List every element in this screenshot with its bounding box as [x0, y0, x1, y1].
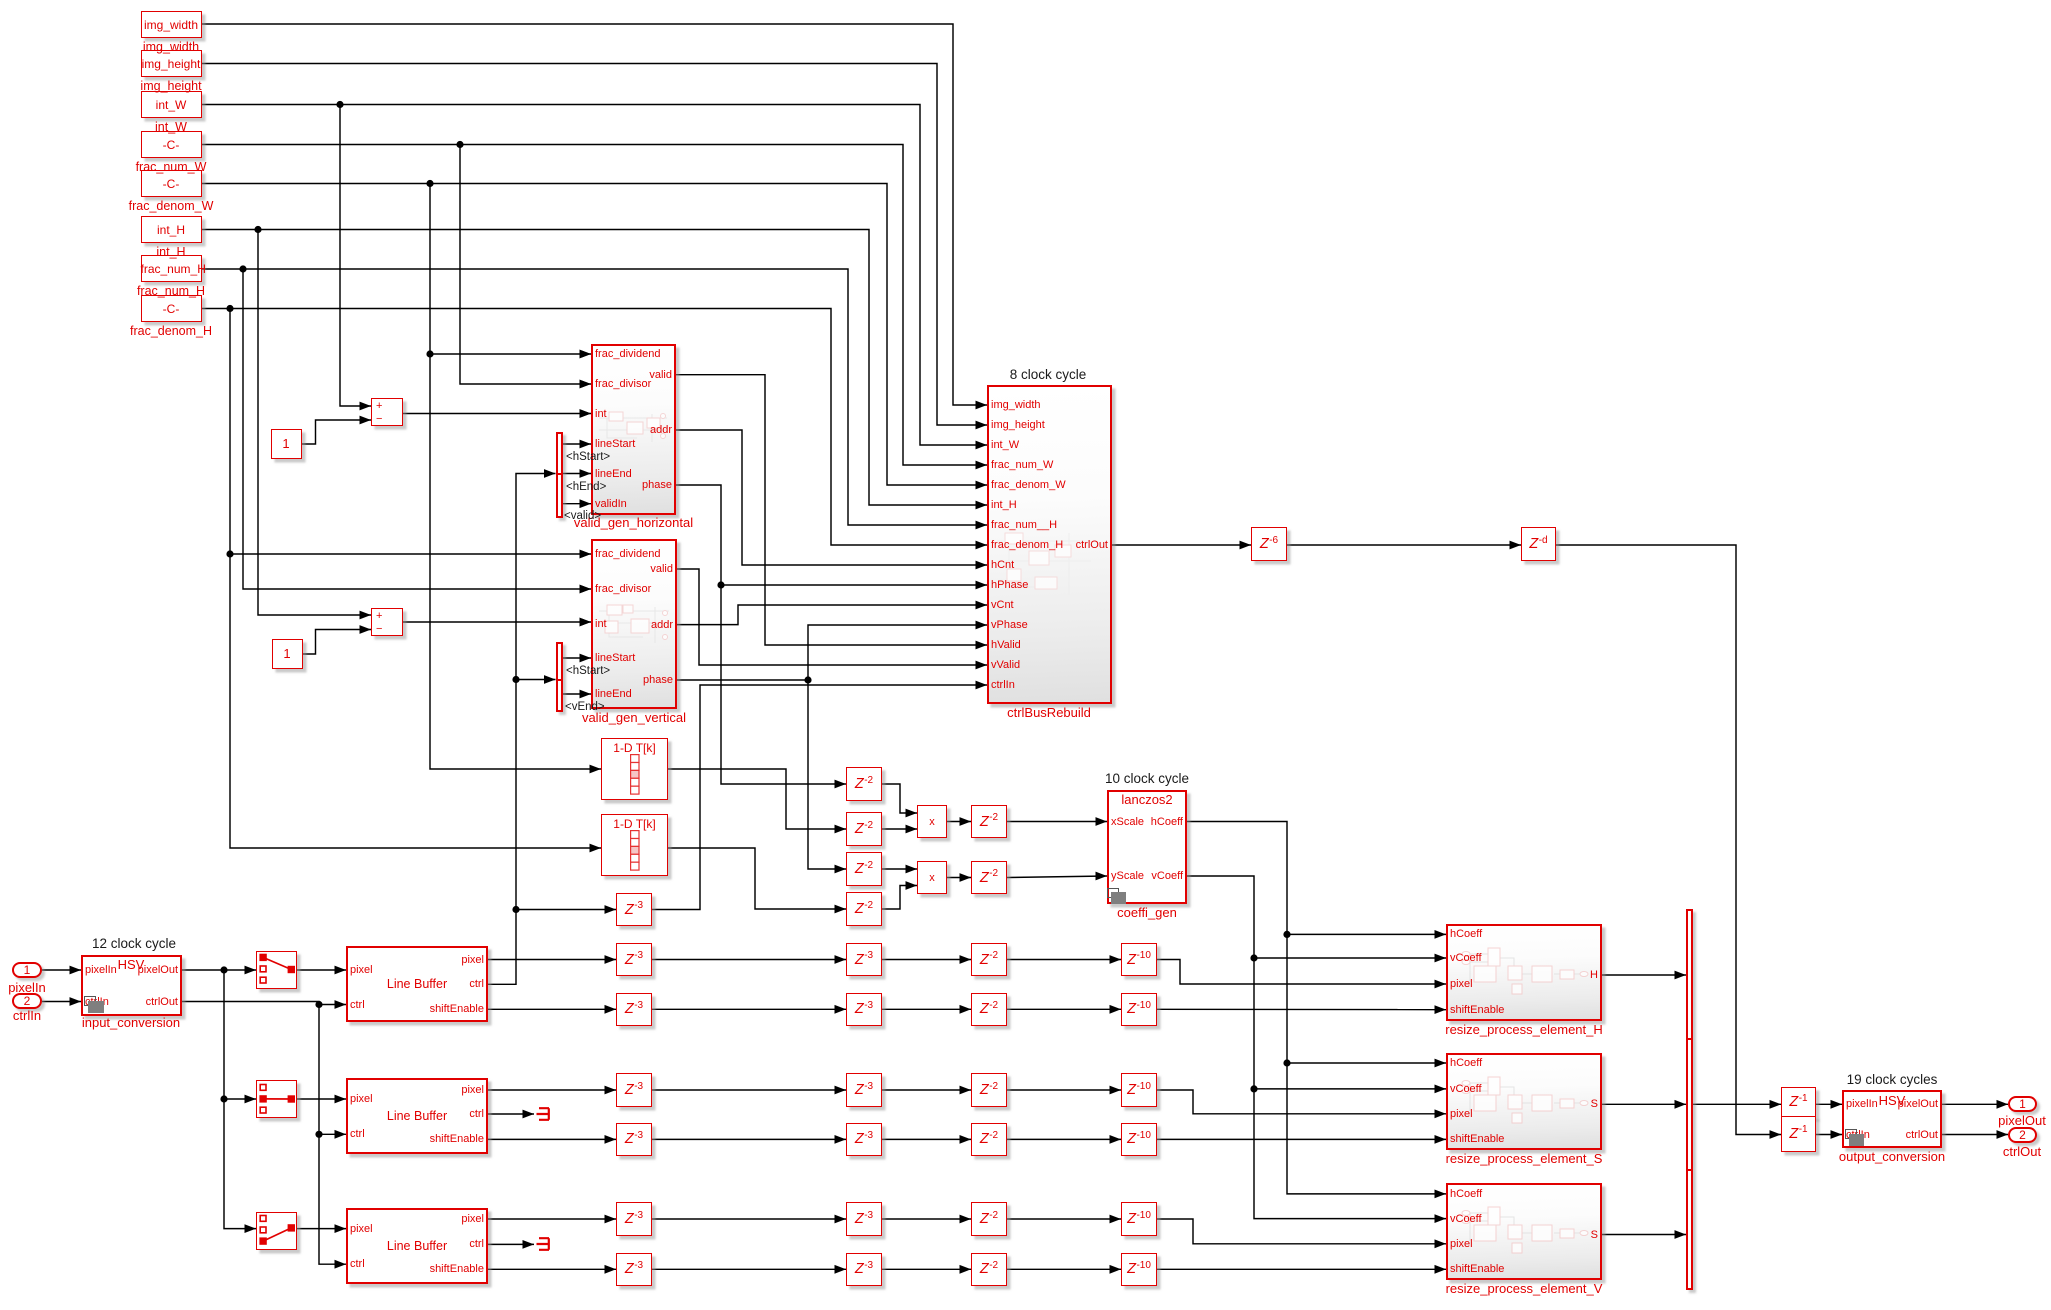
input port 2 ctrlIn: [12, 993, 42, 1009]
bus selector for hStart/vEnd: [556, 642, 563, 712]
lookup table 1-D T[k] #1: [601, 738, 668, 800]
selector H channel: [256, 951, 297, 989]
delay Z-2 post X1: [971, 805, 1007, 838]
subsystem output_conversion: [1842, 1090, 1942, 1148]
terminator 2: [536, 1237, 552, 1251]
delay Z-3 row3 col2: [846, 1073, 882, 1107]
delay Z-2 row1 col3: [971, 943, 1007, 977]
subsystem valid_gen_horizontal: [591, 344, 676, 515]
subsystem valid_gen_vertical: [591, 539, 677, 709]
delay Z-2 row3 col3: [971, 1073, 1007, 1107]
wire Z-1 ctrl to output_conversion: [1742, 1072, 2042, 1088]
delay Z-3 row1 col1: [616, 943, 652, 977]
wire bus selector1 outputs: [566, 449, 610, 465]
subsystem ctrlBusRebuild: [987, 385, 1112, 704]
delay Z-2 p2: [846, 812, 882, 846]
variant badge coeffi_gen: [1107, 888, 1119, 898]
variant badge output_conversion: [1845, 1129, 1857, 1139]
delay Z-10 row3 col4: [1121, 1073, 1157, 1107]
wire Z-2 to coeffi_gen yScale: [997, 771, 1297, 787]
delay Z-2 row2 col3: [971, 993, 1007, 1027]
delay Z-3 row3 col1: [616, 1073, 652, 1107]
delay Z-3 row2 col2: [846, 993, 882, 1027]
output port 2 ctrlOut: [2008, 1127, 2037, 1143]
subsystem Line Buffer 3: [346, 1208, 488, 1284]
delay Z-10 row2 col4: [1121, 993, 1157, 1027]
mux bus bar: [1686, 909, 1693, 1290]
bus selector for hStart/hEnd/valid: [556, 432, 563, 518]
constant frac_denom_W: [141, 170, 202, 197]
product X1: [917, 805, 947, 838]
delay Z-3 row5 col1: [616, 1202, 652, 1236]
terminator 1: [536, 1107, 552, 1121]
constant 1 (horizontal): [271, 429, 302, 459]
delay Z-2 p1: [846, 767, 882, 801]
delay Z-10 row6 col4: [1121, 1253, 1157, 1287]
constant frac_num_W: [141, 131, 202, 158]
variant badge input_conversion: [84, 996, 96, 1006]
sum block Add1: [371, 398, 403, 426]
delay Z-1 pixel: [1781, 1087, 1816, 1118]
subsystem resize_process_element_V: [1446, 1183, 1602, 1280]
delay Z-3 ctrl: [616, 893, 652, 926]
sum block Add2: [371, 608, 403, 636]
delay Z-2 p3: [846, 852, 882, 886]
constant int_H: [141, 216, 202, 243]
delay Z-2 row4 col3: [971, 1123, 1007, 1157]
subsystem Line Buffer 1: [346, 946, 488, 1022]
delay Z-3 row4 col1: [616, 1123, 652, 1157]
wire port2 to input_conversion: [0, 936, 284, 952]
delay Z-2 row6 col3: [971, 1253, 1007, 1287]
constant int_W: [141, 91, 202, 118]
subsystem Line Buffer 2: [346, 1078, 488, 1154]
product X2: [917, 861, 947, 894]
selector V channel: [256, 1212, 297, 1250]
delay Z-3 row4 col2: [846, 1123, 882, 1157]
wire bus selector2 outputs: [566, 663, 610, 679]
delay Z-10 row1 col4: [1121, 943, 1157, 977]
delay Z-10 row5 col4: [1121, 1202, 1157, 1236]
delay Z-2 row5 col3: [971, 1202, 1007, 1236]
input port 1 pixelIn: [12, 962, 42, 978]
constant img_height: [141, 50, 202, 77]
constant frac_num_H: [141, 255, 202, 282]
lookup table 1-D T[k] #2: [601, 814, 668, 876]
delay Z-3 row6 col2: [846, 1253, 882, 1287]
delay Z-2 post X2: [971, 861, 1007, 894]
constant frac_denom_H: [141, 295, 202, 322]
delay Z-10 row4 col4: [1121, 1123, 1157, 1157]
delay Z-6: [1251, 527, 1287, 561]
arrowheads: [70, 350, 2009, 1274]
delay Z-3 row2 col1: [616, 993, 652, 1027]
output port 1 pixelOut: [2008, 1096, 2037, 1112]
constant img_width: [141, 11, 202, 38]
selector S channel: [256, 1080, 297, 1118]
subsystem input_conversion: [81, 955, 182, 1016]
subsystem resize_process_element_H: [1446, 924, 1602, 1021]
delay Z-3 row1 col2: [846, 943, 882, 977]
delay Z-d: [1521, 527, 1556, 561]
subsystem resize_process_element_S: [1446, 1053, 1602, 1150]
delay Z-2 p4: [846, 892, 882, 926]
delay Z-3 row6 col1: [616, 1253, 652, 1287]
constant 1 (vertical): [272, 639, 303, 669]
delay Z-1 ctrl: [1781, 1116, 1816, 1153]
delay Z-3 row5 col2: [846, 1202, 882, 1236]
subsystem coeffi_gen (lanczos2): [1107, 790, 1187, 904]
